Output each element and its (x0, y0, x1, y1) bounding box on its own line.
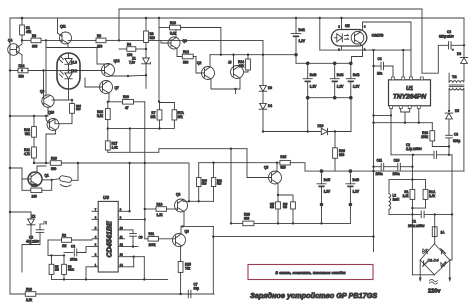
svg-text:D5: D5 (455, 109, 459, 113)
battery Bat1 (291, 17, 306, 64)
svg-text:5,1k: 5,1k (97, 114, 103, 118)
svg-text:В схеме, возможно, имеются оши: В схеме, возможно, имеются ошибки (275, 270, 346, 275)
U2 pin2 (338, 17, 342, 30)
U2 pin1 (338, 46, 341, 52)
resistor R20 (283, 202, 295, 224)
wire Bat2 drop (350, 98, 352, 132)
svg-text:910k: 910k (68, 268, 74, 272)
resistor R24 (9, 64, 57, 98)
wire left rail (9, 18, 11, 294)
LED HL2 (60, 69, 78, 89)
svg-text:Bat3: Bat3 (310, 73, 317, 77)
wire row y223.4 (231, 213, 350, 226)
transformer Tr2 (449, 73, 464, 171)
svg-text:R4: R4 (127, 42, 131, 46)
wire x464 down (463, 18, 465, 58)
svg-text:910: 910 (280, 166, 286, 170)
ground J5 (230, 89, 241, 97)
diode D5 (445, 109, 459, 135)
svg-text:Bat4: Bat4 (337, 73, 344, 77)
svg-text:240: 240 (32, 194, 38, 198)
ground bottom-left (16, 273, 28, 276)
wire HL mid row (57, 70, 85, 72)
resistor R5 1M (49, 254, 59, 279)
svg-text:R23: R23 (26, 287, 32, 291)
wire bottom rail (10, 293, 214, 295)
svg-text:Bat2: Bat2 (353, 73, 360, 77)
resistor R14 20k (238, 55, 250, 72)
svg-text:220v: 220v (428, 289, 441, 295)
wire x48 drop (48, 240, 52, 255)
svg-text:R10: R10 (123, 95, 129, 99)
svg-text:C9: C9 (139, 236, 143, 240)
wire Q11 to R3 (68, 39, 96, 41)
svg-text:R12: R12 (183, 50, 189, 54)
svg-text:10n: 10n (377, 72, 383, 76)
wire row y171.1 (305, 169, 464, 173)
wire R13 feed (158, 17, 170, 103)
diode D9 (259, 40, 272, 91)
capacitor C4 10n (374, 57, 394, 80)
resistor R2 1M (48, 233, 92, 248)
wire right vertical x452 (450, 155, 452, 260)
svg-text:820µ: 820µ (453, 139, 460, 143)
wire C3 loop (422, 45, 449, 73)
svg-text:47µ x10v: 47µ x10v (26, 240, 39, 244)
svg-text:U3: U3 (103, 195, 109, 200)
svg-text:200k: 200k (421, 135, 428, 139)
optocoupler U2 body (331, 24, 383, 46)
wire to ground left (22, 240, 40, 273)
svg-text:Q2: Q2 (197, 61, 201, 65)
resistor R7A (160, 103, 185, 129)
battery Bat6 (346, 171, 360, 204)
wire row y166.7 C11 C10 (374, 159, 414, 176)
wire x220.9 vertical (220, 28, 222, 56)
U3 right pins (118, 207, 145, 279)
IC U1 TNY264PN (389, 77, 431, 109)
svg-text:45k: 45k (26, 30, 32, 34)
wire capsule bottom to Q9 (52, 89, 73, 101)
svg-text:C1: C1 (412, 220, 416, 224)
svg-text:Q3: Q3 (183, 39, 187, 43)
svg-text:J5: J5 (228, 61, 232, 65)
svg-text:5k6: 5k6 (202, 182, 207, 186)
wire row y131.5 D10 (262, 130, 322, 132)
svg-text:D1-D4: D1-D4 (428, 258, 439, 262)
svg-text:U2: U2 (345, 24, 350, 28)
svg-text:U1: U1 (406, 86, 413, 92)
red warning box (248, 265, 373, 280)
svg-text:5,1k: 5,1k (170, 32, 176, 36)
svg-text:Q10: Q10 (48, 111, 54, 115)
wire pin9 up (128, 163, 130, 213)
transistor Q7 (100, 81, 119, 94)
wire row y122.7 (374, 122, 433, 124)
svg-text:4,7k: 4,7k (24, 152, 30, 156)
svg-text:1mH: 1mH (393, 198, 400, 202)
svg-text:R6: R6 (32, 34, 36, 38)
indicator capsule (57, 53, 80, 89)
svg-text:605: 605 (32, 45, 38, 49)
wire row y154.8 (391, 154, 434, 156)
thermistor t (51, 163, 79, 187)
svg-text:C11: C11 (377, 159, 383, 163)
transistor Q11 (58, 18, 72, 48)
ground Z1 (140, 89, 152, 91)
svg-text:Q5: Q5 (264, 166, 268, 170)
svg-text:D10: D10 (318, 124, 324, 128)
svg-text:10k: 10k (178, 115, 184, 119)
wire U1 bottom pins (374, 109, 420, 155)
wire loop top y179.6 (389, 179, 426, 181)
transistor Q4 (8, 39, 22, 71)
wire long vertical x373.5 (372, 50, 374, 252)
svg-text:12: 12 (120, 243, 123, 247)
svg-text:Q8: Q8 (185, 230, 189, 234)
svg-text:1,2V: 1,2V (337, 85, 344, 89)
svg-text:910: 910 (150, 36, 156, 40)
LED HL3 (60, 53, 78, 71)
wire row y236.6 (213, 236, 373, 238)
resistor R13 (170, 21, 221, 36)
svg-text:C8: C8 (454, 133, 458, 137)
U3 left pins (92, 207, 98, 266)
transistor J5 (211, 54, 244, 91)
svg-text:Bat5: Bat5 (324, 178, 331, 182)
svg-text:5k6: 5k6 (217, 182, 222, 186)
wire y201.3 (183, 200, 214, 202)
wire battery bus y97.7 (306, 96, 353, 100)
wire Bat1 link row y55 (210, 53, 298, 56)
svg-text:100k: 100k (149, 243, 156, 247)
capacitor C4a (64, 245, 92, 262)
wire vertical x231 (230, 148, 232, 225)
svg-text:560: 560 (19, 75, 25, 79)
resistor R22 (97, 101, 110, 141)
wire Bat3 drop (307, 98, 309, 132)
svg-text:10k: 10k (150, 115, 156, 119)
battery Bat4 (330, 63, 344, 97)
wire x412.4 vertical (411, 155, 413, 190)
IC U3 (98, 195, 118, 272)
svg-text:Зарядное устройство GP PB17GS: Зарядное устройство GP PB17GS (250, 291, 377, 300)
battery Bat5 (317, 171, 331, 204)
battery Bat3 (303, 63, 317, 97)
svg-text:2,2µ x400v: 2,2µ x400v (406, 147, 422, 151)
svg-text:R13: R13 (170, 21, 176, 25)
resistor R3 (96, 34, 120, 49)
svg-text:HL3: HL3 (71, 61, 77, 65)
capacitor C1 label (408, 220, 425, 229)
svg-text:13: 13 (120, 253, 123, 257)
wire B y162.7 (199, 162, 280, 164)
U2 pin3 (363, 22, 412, 50)
wire y40.4 extension (119, 39, 263, 41)
capacitor C7 (188, 283, 213, 298)
U2 pin4 (352, 46, 366, 63)
resistor R15 (280, 155, 305, 171)
resistor R4 (119, 42, 147, 57)
wire row y148 (159, 148, 247, 150)
svg-text:910: 910 (270, 206, 275, 209)
resistor R6 (31, 34, 60, 49)
svg-text:680: 680 (244, 217, 250, 221)
svg-text:R3: R3 (97, 34, 101, 38)
resistor R30 (197, 163, 208, 203)
battery Bat2 (346, 63, 360, 97)
resistor R11 100k (145, 232, 176, 247)
wire row y128.6 (108, 127, 161, 152)
wire U1 top feeds (403, 50, 411, 80)
transistor Q3 (161, 30, 187, 54)
svg-text:2,2k: 2,2k (26, 298, 32, 302)
resistor R1p (402, 189, 414, 274)
svg-text:C817B: C817B (372, 34, 384, 38)
wire battery bus y63.3 (296, 62, 353, 66)
svg-text:t: t (46, 221, 47, 225)
resistor R10 (109, 93, 145, 239)
wire y278.2 (52, 267, 168, 281)
svg-text:70k: 70k (185, 267, 191, 271)
svg-text:C4: C4 (378, 57, 382, 61)
inductor L2 (389, 180, 400, 215)
wire riser x213.5 (212, 226, 214, 294)
svg-text:Bat6: Bat6 (353, 178, 360, 182)
resistor R26 680 (333, 130, 345, 171)
transistor Q8 (173, 225, 189, 246)
transistor Q1 (9, 166, 49, 186)
resistor R33 (22, 179, 52, 198)
resistor R19 (50, 156, 189, 171)
resistor R21 (24, 147, 36, 163)
svg-text:560: 560 (183, 61, 189, 65)
svg-text:51k: 51k (25, 132, 31, 136)
resistor R23 (25, 287, 36, 302)
wire bridge bottom (412, 274, 434, 276)
U2 LED (334, 34, 348, 42)
diode D6 (457, 52, 468, 81)
svg-text:14: 14 (120, 263, 123, 267)
svg-text:11: 11 (120, 235, 123, 239)
resistor R16 200k (421, 123, 449, 147)
svg-text:R15: R15 (280, 155, 286, 159)
wire row y151.3 (108, 149, 159, 153)
svg-text:1,2V: 1,2V (353, 190, 360, 194)
svg-text:R24: R24 (19, 64, 25, 68)
svg-text:1,2V: 1,2V (353, 85, 360, 89)
svg-text:680: 680 (339, 153, 345, 157)
wire pin2 row left (0, 0, 1, 1)
transistor Q6 (175, 193, 188, 227)
svg-text:100n: 100n (70, 258, 77, 262)
svg-text:150: 150 (97, 45, 103, 49)
transistor Q9 (40, 40, 54, 116)
svg-text:D9: D9 (268, 86, 272, 90)
ground secondary (367, 252, 380, 255)
resistor R8 (144, 17, 155, 57)
svg-text:R33: R33 (32, 184, 38, 188)
resistor R31 (211, 163, 222, 202)
resistor R17 (270, 202, 280, 224)
transistor Q2 (196, 55, 215, 80)
svg-text:1,2V: 1,2V (324, 190, 331, 194)
svg-text:820µ x10v: 820µ x10v (439, 35, 454, 39)
capacitor C3 (439, 30, 465, 52)
resistor R7 (150, 102, 162, 129)
wire mid vertical x144.8 (144, 218, 146, 220)
resistor R9 910k (52, 254, 75, 279)
svg-text:100n: 100n (393, 172, 400, 176)
svg-text:910: 910 (283, 206, 288, 209)
svg-text:R19: R19 (51, 156, 57, 160)
svg-text:R18: R18 (157, 202, 163, 206)
wire Q5 emitter (277, 184, 293, 202)
U2 phototransistor (351, 30, 364, 47)
svg-text:C4: C4 (71, 245, 75, 249)
wire base row y40 (21, 39, 31, 41)
resistor R32 (24, 116, 36, 147)
svg-text:10: 10 (120, 226, 123, 230)
resistor R12 (177, 50, 196, 65)
svg-text:Tr2: Tr2 (452, 75, 457, 79)
wire y226.4 (181, 225, 213, 227)
svg-text:R11: R11 (149, 232, 155, 236)
svg-text:Bat1: Bat1 (299, 28, 306, 32)
resistor R25 (178, 247, 191, 296)
svg-text:Z2: Z2 (32, 215, 36, 219)
svg-text:Q11: Q11 (60, 25, 66, 29)
svg-text:47: 47 (125, 106, 129, 110)
svg-text:C3: C3 (447, 30, 451, 34)
AC 220v label (428, 279, 441, 294)
wire loop bottom y214.4 with C1 (389, 211, 453, 218)
svg-text:33µ: 33µ (194, 287, 200, 291)
svg-text:R2: R2 (62, 233, 66, 237)
wire Q7 base row (85, 78, 103, 87)
capacitor C8 (446, 133, 461, 157)
wire top rail upper (119, 9, 422, 73)
wire U2 row y50.1 (319, 17, 411, 52)
svg-text:D6: D6 (457, 52, 461, 56)
wire riser x189 (188, 163, 190, 203)
bridge D1-D4 (420, 244, 450, 275)
svg-text:CD4541BE: CD4541BE (105, 221, 114, 258)
svg-text:820: 820 (76, 107, 81, 111)
zener Z2 (9, 211, 36, 240)
wire top rail lower (10, 17, 464, 19)
capacitor C2a (26, 221, 47, 244)
wire long row y161.5 (33, 162, 51, 164)
AC arrows (419, 260, 451, 282)
fuse 1A (432, 214, 445, 243)
svg-text:D4: D4 (268, 104, 272, 108)
svg-text:C10: C10 (394, 159, 400, 163)
svg-text:1,2V: 1,2V (299, 39, 306, 43)
svg-text:Q7: Q7 (115, 86, 119, 90)
svg-text:Q12: Q12 (114, 59, 120, 63)
transistor Q10 (9, 111, 59, 131)
svg-text:Q1: Q1 (45, 174, 49, 178)
svg-text:7,5v: 7,5v (129, 61, 135, 65)
resistor R18 (144, 202, 178, 217)
svg-text:100n: 100n (376, 172, 383, 176)
svg-text:Q6: Q6 (176, 193, 180, 197)
svg-text:20k: 20k (239, 64, 245, 68)
svg-text:1,3k: 1,3k (112, 146, 118, 150)
node battery bottoms (320, 203, 353, 224)
wire capsule top link (46, 40, 97, 64)
svg-text:100n x400v: 100n x400v (408, 224, 425, 228)
transistor Q5 (247, 149, 282, 184)
transistor Q12 (85, 59, 120, 77)
svg-text:2,4k: 2,4k (429, 194, 435, 198)
resistor R34 (55, 100, 81, 124)
capacitor C2 (406, 143, 452, 159)
svg-text:1,2k: 1,2k (157, 213, 163, 217)
resistor R27 (105, 141, 118, 152)
svg-text:TNY264PN: TNY264PN (393, 94, 427, 101)
resistor R1 (20, 17, 32, 41)
svg-text:Q4: Q4 (8, 39, 12, 43)
svg-text:1,2V: 1,2V (310, 85, 317, 89)
zener Z1 (129, 57, 150, 89)
capacitor C9 (130, 230, 143, 248)
svg-text:1M: 1M (62, 244, 67, 248)
diode D4 (259, 91, 272, 131)
svg-text:560: 560 (51, 167, 57, 171)
diode D10 (318, 124, 352, 135)
wire Q10 emitter down (46, 130, 56, 163)
svg-text:+: + (452, 48, 454, 52)
svg-text:2,4k: 2,4k (402, 194, 408, 198)
resistor R1A (412, 180, 436, 209)
wire Q12 emitter node (111, 74, 147, 77)
